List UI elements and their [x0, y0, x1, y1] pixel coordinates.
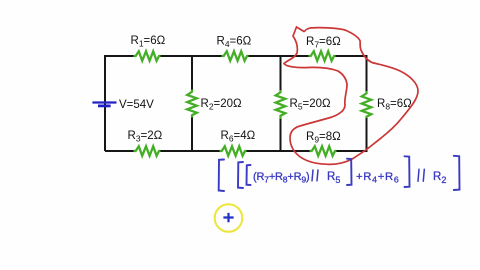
- wire top segment R4 to R7: [249, 55, 309, 57]
- formula middle open bracket: [238, 162, 243, 188]
- wire bottom segment R6 to R9: [247, 150, 310, 152]
- resistor R4: [222, 51, 249, 61]
- svg-text:+R4+R6: +R4+R6: [356, 171, 399, 185]
- resistor R6: [220, 146, 247, 156]
- resistor R2: [187, 90, 197, 118]
- wire bottom segment R3 to R6: [161, 150, 220, 152]
- resistor R7: [309, 51, 336, 61]
- wire right vertical lower (R8 branch): [366, 118, 368, 152]
- resistor R3: [134, 146, 161, 156]
- plus sign node marker: [223, 213, 233, 222]
- formula parallel bars outer: [418, 169, 424, 181]
- wire R2 branch vertical lower: [191, 118, 193, 152]
- yellow marker circle: [215, 204, 243, 232]
- formula parallel bars inner: [312, 170, 318, 181]
- red annotation loop around R7 R8 R9: [284, 27, 418, 164]
- wire R2 branch vertical upper: [191, 55, 193, 90]
- wire top segment R7 to top-right corner: [336, 55, 367, 57]
- svg-text:R8=6Ω: R8=6Ω: [377, 98, 412, 112]
- svg-text:V=54V: V=54V: [119, 99, 154, 111]
- resistor R8: [362, 91, 372, 118]
- wire right vertical upper (R8 branch): [366, 55, 368, 91]
- svg-text:R3=2Ω: R3=2Ω: [128, 130, 163, 144]
- wire left vertical (battery branch): [104, 55, 106, 151]
- formula outer open bracket: [219, 160, 224, 192]
- wire R5 branch vertical lower: [280, 119, 282, 151]
- wire R5 branch vertical upper: [280, 55, 282, 90]
- formula middle close bracket: [405, 156, 410, 187]
- svg-text:R5=20Ω: R5=20Ω: [290, 98, 332, 112]
- resistor R9: [310, 146, 337, 156]
- wire bottom segment left corner to R3: [105, 150, 134, 152]
- svg-text:R9=8Ω: R9=8Ω: [306, 131, 341, 145]
- wire top segment left (node A to R1): [105, 55, 134, 57]
- svg-text:R4=6Ω: R4=6Ω: [217, 36, 252, 50]
- resistor R1: [134, 51, 161, 61]
- svg-text:R1=6Ω: R1=6Ω: [131, 35, 166, 49]
- battery V1 plate long: [92, 101, 116, 103]
- formula outer close bracket: [454, 156, 460, 190]
- battery V1 plate short: [98, 105, 111, 108]
- svg-text:R7=6Ω: R7=6Ω: [306, 36, 341, 50]
- svg-text:R6=4Ω: R6=4Ω: [221, 130, 256, 144]
- formula inner close bracket: [347, 159, 352, 185]
- wire top segment R1 to R4: [161, 55, 222, 57]
- resistor R5: [276, 90, 286, 119]
- svg-text:R2=20Ω: R2=20Ω: [201, 98, 243, 112]
- svg-text:(R7+R8+R9): (R7+R8+R9): [253, 171, 309, 185]
- formula inner open bracket: [247, 165, 251, 185]
- wire bottom segment R9 to bottom-right corner: [337, 150, 367, 152]
